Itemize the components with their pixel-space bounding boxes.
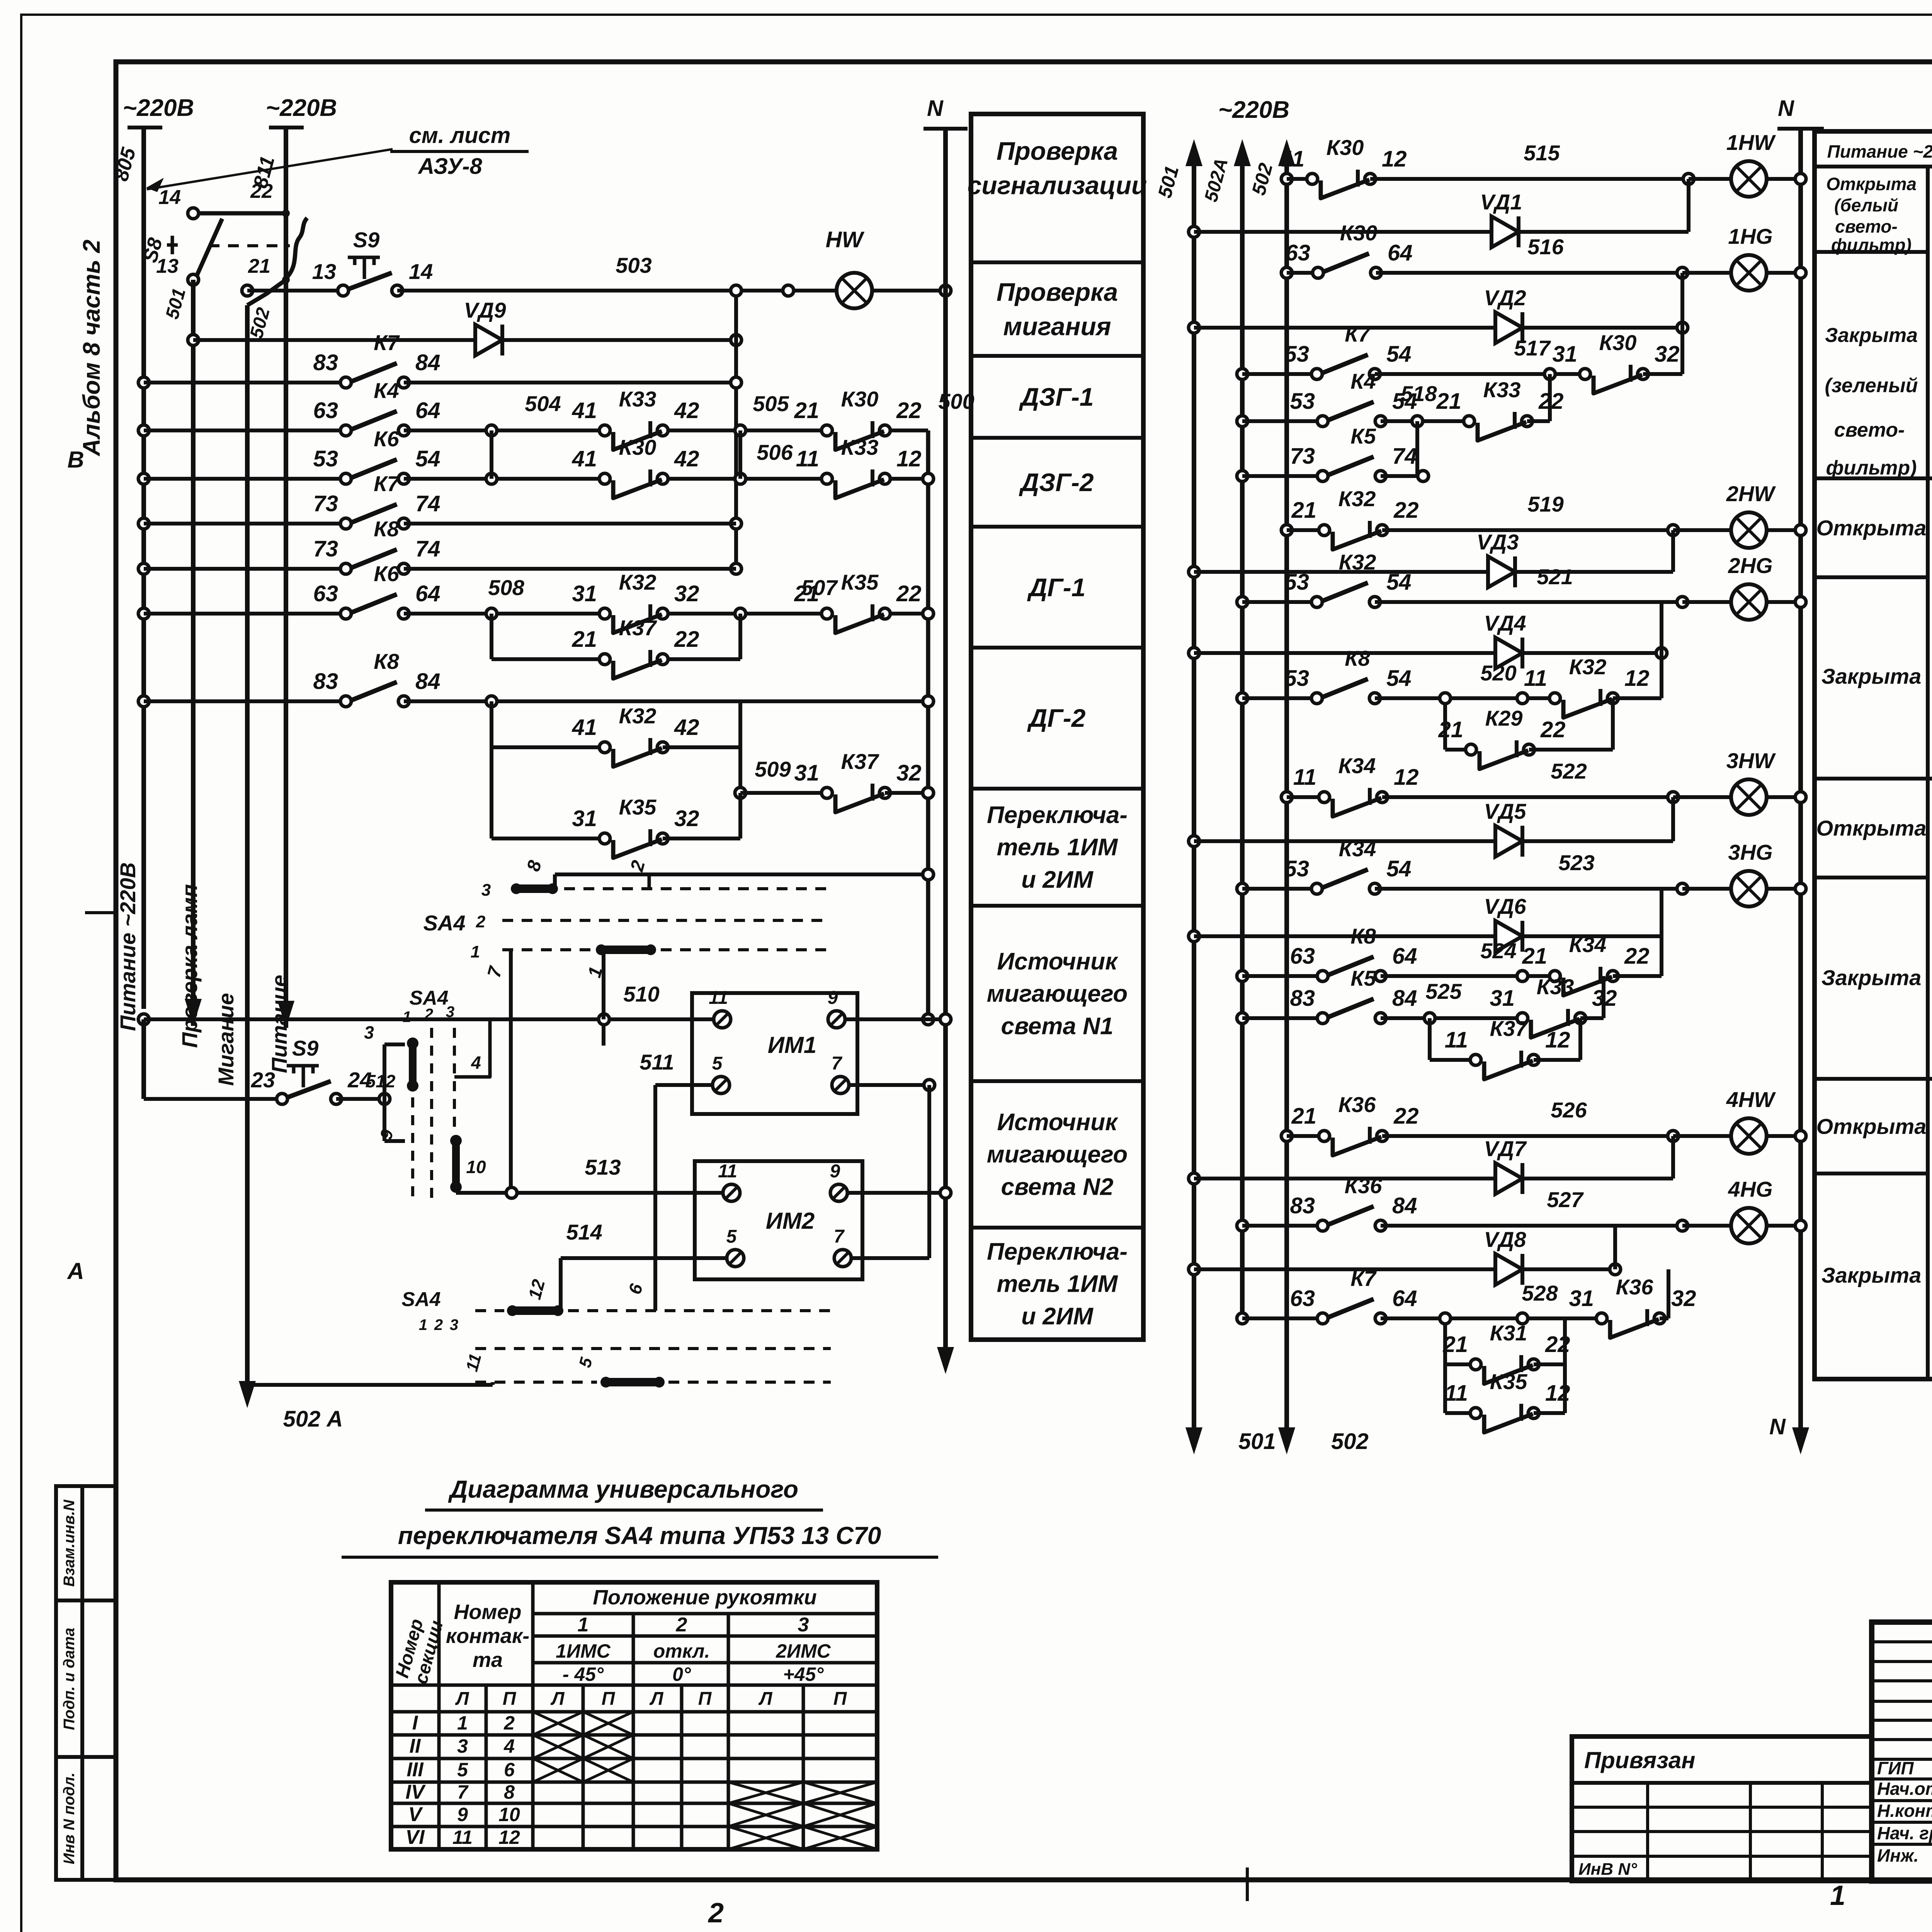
svg-text:N: N: [1778, 96, 1794, 121]
lamp 4HG: [1731, 1208, 1767, 1243]
svg-text:К33: К33: [619, 387, 656, 411]
wire VD9 riser: [731, 335, 742, 345]
svg-text:S9: S9: [292, 1036, 319, 1060]
svg-text:10: 10: [498, 1804, 520, 1825]
svg-text:Н.контр.: Н.контр.: [1877, 1801, 1932, 1821]
svg-text:21: 21: [1442, 1332, 1468, 1357]
svg-text:22: 22: [674, 627, 699, 652]
svg-text:9: 9: [830, 1161, 840, 1182]
SA4 mid section: [336, 1097, 384, 1101]
contact K7 63-64 mid: [1328, 1315, 1375, 1321]
privyazan block: [1572, 1736, 1872, 1881]
row 528: [1237, 1313, 1248, 1324]
svg-text:2: 2: [707, 1898, 724, 1929]
svg-text:N: N: [1769, 1414, 1786, 1439]
svg-text:света N2: света N2: [1001, 1173, 1114, 1200]
svg-text:11: 11: [1445, 1381, 1468, 1406]
svg-text:П: П: [602, 1689, 616, 1709]
arrow 501 bottom: [1192, 1408, 1196, 1443]
svg-text:522: 522: [1551, 759, 1587, 783]
svg-text:3: 3: [798, 1614, 809, 1636]
wire 519: [1382, 528, 1673, 532]
svg-text:2ИМС: 2ИМС: [776, 1640, 831, 1662]
contact K33 11-12: [833, 476, 879, 482]
svg-text:К37: К37: [1490, 1016, 1529, 1041]
svg-text:31: 31: [572, 581, 597, 606]
svg-text:сигнализации: сигнализации: [968, 171, 1147, 200]
svg-text:Питание ~220В: Питание ~220В: [116, 862, 140, 1031]
svg-text:Открыта: Открыта: [1816, 1114, 1927, 1139]
svg-text:ДЗГ-1: ДЗГ-1: [1019, 383, 1094, 411]
diode VD3 row: [1189, 566, 1199, 577]
S8 dashed link: [209, 244, 290, 247]
contact K30 11-12 mid: [1318, 176, 1364, 182]
svg-text:74: 74: [1392, 444, 1417, 469]
diode VD2 row: [1189, 322, 1199, 333]
svg-text:К35: К35: [619, 795, 657, 819]
svg-text:512: 512: [366, 1071, 396, 1091]
svg-text:2: 2: [424, 1006, 433, 1023]
lamp 3HG: [1731, 871, 1767, 906]
long horizontal feed 510: [138, 1014, 149, 1025]
svg-text:Открыта: Открыта: [1826, 174, 1917, 194]
wire 504 node: [486, 425, 497, 436]
contact K33 21-22 mid: [1475, 418, 1521, 424]
svg-text:III: III: [406, 1759, 424, 1781]
svg-text:1: 1: [403, 1009, 411, 1026]
svg-text:II: II: [410, 1735, 421, 1757]
svg-text:21: 21: [248, 255, 270, 277]
svg-text:83: 83: [313, 669, 338, 694]
S9 lower pushbutton: [141, 1019, 146, 1099]
svg-text:Закрыта: Закрыта: [1825, 324, 1918, 347]
svg-text:42: 42: [674, 446, 699, 471]
contact K8 53-54 mid: [1323, 695, 1369, 701]
svg-text:2: 2: [503, 1712, 515, 1734]
svg-text:К34: К34: [1569, 932, 1607, 957]
svg-text:Переключа-: Переключа-: [987, 802, 1128, 828]
svg-text:21: 21: [1291, 498, 1316, 523]
wire 505 node: [735, 425, 746, 436]
svg-text:А: А: [66, 1258, 84, 1284]
svg-text:К35: К35: [841, 570, 879, 594]
svg-text:К36: К36: [1338, 1092, 1376, 1117]
svg-text:Проверка ламп: Проверка ламп: [177, 884, 202, 1048]
riser vd3-519: [1671, 530, 1675, 572]
riser 525 output: [1602, 976, 1605, 1018]
contact K30 41-42: [611, 476, 657, 482]
svg-text:21: 21: [1436, 389, 1461, 414]
diode VD8 row: [1189, 1264, 1199, 1275]
column2 divider vertical: [1926, 167, 1930, 1379]
svg-text:31: 31: [572, 806, 597, 831]
svg-text:1: 1: [471, 942, 480, 961]
svg-text:П: П: [833, 1689, 847, 1709]
contact K34 53-54 mid: [1323, 886, 1369, 892]
contact K30 21-22: [833, 427, 879, 434]
SA4 mid bar section II: [452, 1138, 460, 1190]
svg-text:К30: К30: [1340, 221, 1378, 245]
arrow bus proverka lamp: [191, 980, 195, 1014]
svg-text:Л: Л: [455, 1689, 469, 1709]
svg-text:ИМ1: ИМ1: [768, 1032, 817, 1058]
svg-text:контак-: контак-: [446, 1624, 529, 1648]
diode VD9 row: [188, 335, 199, 345]
riser 518 down: [1415, 421, 1419, 474]
svg-text:84: 84: [415, 350, 440, 375]
riser vd2-516: [1680, 273, 1684, 328]
svg-text:Источник: Источник: [997, 948, 1118, 975]
svg-text:VД2: VД2: [1484, 286, 1526, 310]
svg-text:К33: К33: [841, 435, 879, 459]
contact K32 11-12 mid: [1561, 695, 1607, 701]
svg-text:Проверка: Проверка: [997, 278, 1118, 306]
contact K30 63-64 mid: [1324, 270, 1370, 276]
svg-text:42: 42: [674, 398, 699, 423]
contact K35 21-22: [833, 611, 879, 617]
loop K32 41-42 row: [490, 701, 493, 838]
wire IM1 pin9 to N bus: [845, 1017, 946, 1021]
row K6 53-54: [138, 473, 149, 484]
right collector left block: [926, 430, 930, 1019]
svg-text:21: 21: [571, 627, 597, 652]
contact K37 31-32: [833, 790, 879, 796]
svg-text:63: 63: [313, 398, 338, 423]
svg-text:22: 22: [1393, 1104, 1419, 1129]
title block small rows: [1872, 1640, 1932, 1643]
wire 503 row: [242, 285, 253, 296]
IM2 box: [695, 1161, 862, 1279]
svg-text:К32: К32: [1338, 486, 1376, 511]
zone tick left: [85, 911, 116, 914]
row 519 feed: [1281, 525, 1292, 536]
svg-text:502: 502: [1331, 1429, 1369, 1454]
svg-text:VД5: VД5: [1484, 799, 1527, 823]
lamp 1HW: [1731, 161, 1767, 197]
svg-text:64: 64: [1392, 944, 1417, 969]
contact K4 53-54 mid: [1328, 418, 1375, 424]
svg-text:~220В: ~220В: [1218, 97, 1289, 123]
svg-text:12: 12: [1545, 1027, 1570, 1053]
svg-text:32: 32: [674, 581, 699, 606]
svg-text:Мигание: Мигание: [214, 993, 238, 1086]
wire IM1 pin7 right: [849, 1083, 929, 1087]
sa4 cross marks: [533, 1712, 583, 1735]
svg-text:53: 53: [1284, 666, 1309, 691]
loop K37 11-12: [1428, 1018, 1432, 1060]
svg-text:Закрыта: Закрыта: [1821, 664, 1921, 689]
svg-text:К7: К7: [374, 330, 400, 355]
svg-text:525: 525: [1425, 979, 1462, 1003]
riser 518-517: [1548, 374, 1552, 421]
riser vd7-526: [1671, 1136, 1675, 1179]
svg-text:Л: Л: [759, 1689, 773, 1709]
svg-text:Переключа-: Переключа-: [987, 1238, 1128, 1265]
bus pitanie left: [284, 216, 288, 1028]
svg-text:513: 513: [585, 1155, 621, 1179]
svg-text:Источник: Источник: [997, 1109, 1118, 1136]
row K7 83-84: [138, 377, 149, 388]
row K8 73-74: [138, 563, 149, 574]
svg-text:Л: Л: [650, 1689, 664, 1709]
svg-text:11: 11: [709, 988, 728, 1008]
svg-text:5: 5: [712, 1053, 723, 1074]
svg-text:514: 514: [566, 1220, 602, 1244]
lead 6 drop from 511: [653, 1085, 657, 1311]
svg-text:83: 83: [1290, 986, 1315, 1011]
svg-text:83: 83: [313, 350, 338, 375]
contact K33 41-42: [611, 427, 657, 434]
svg-text:VД4: VД4: [1484, 611, 1526, 635]
svg-text:SА4: SА4: [401, 1288, 440, 1311]
svg-text:К29: К29: [1485, 706, 1523, 730]
svg-text:К8: К8: [374, 649, 399, 673]
svg-text:31: 31: [794, 760, 819, 786]
svg-text:13: 13: [312, 259, 336, 284]
svg-text:VД6: VД6: [1484, 894, 1527, 918]
svg-text:11: 11: [796, 446, 819, 471]
svg-text:Закрыта: Закрыта: [1821, 966, 1921, 990]
svg-text:К32: К32: [619, 570, 656, 594]
collector elbow to SA4: [555, 872, 928, 876]
svg-text:31: 31: [1552, 342, 1577, 367]
row 526 feed: [1281, 1131, 1292, 1141]
svg-text:510: 510: [623, 982, 659, 1006]
lamp 2HW: [1731, 512, 1767, 548]
svg-text:+45°: +45°: [783, 1663, 824, 1685]
svg-text:528: 528: [1522, 1281, 1558, 1305]
N bus mid: [1798, 129, 1803, 1430]
svg-text:Открыта: Открыта: [1816, 816, 1927, 840]
svg-text:22: 22: [1393, 498, 1419, 523]
svg-text:ДЗГ-2: ДЗГ-2: [1019, 468, 1094, 497]
wire 526: [1382, 1134, 1673, 1138]
N bus left: [940, 285, 951, 296]
svg-text:23: 23: [251, 1068, 275, 1092]
svg-text:9: 9: [457, 1804, 468, 1825]
loop K29 21-22: [1443, 698, 1447, 750]
svg-text:1НG: 1НG: [1728, 224, 1772, 248]
loop K37 21-22: [490, 614, 493, 659]
svg-text:22: 22: [896, 581, 922, 606]
svg-text:3: 3: [446, 1003, 454, 1020]
svg-text:и 2ИМ: и 2ИМ: [1021, 1303, 1094, 1330]
svg-text:VД8: VД8: [1484, 1227, 1527, 1252]
wire 509 row: [735, 787, 746, 798]
svg-text:73: 73: [313, 491, 338, 516]
svg-text:света N1: света N1: [1001, 1013, 1114, 1039]
row 521: [1237, 597, 1248, 607]
contact K36 83-84 mid: [1328, 1223, 1375, 1229]
lamp 1HG: [1731, 255, 1767, 291]
svg-text:К33: К33: [1537, 975, 1574, 999]
svg-text:53: 53: [313, 446, 338, 471]
link 505-506: [738, 430, 742, 479]
contact K33 31-32 mid: [1528, 1015, 1575, 1021]
diode VD4 row: [1189, 648, 1199, 658]
contact K36 31-32 mid: [1607, 1315, 1654, 1321]
svg-text:Л: Л: [551, 1689, 565, 1709]
svg-text:К7: К7: [374, 471, 400, 496]
svg-text:К8: К8: [1350, 924, 1376, 948]
row 517: [1237, 369, 1248, 379]
svg-text:21: 21: [1522, 944, 1547, 969]
lamp 4HW: [1731, 1118, 1767, 1154]
contact K7 53-54 mid: [1323, 371, 1369, 377]
lamp 3HW: [1731, 779, 1767, 815]
SA4 upper lead 7 drop: [509, 950, 513, 1193]
svg-text:Альбом 8 часть 2: Альбом 8 часть 2: [78, 240, 105, 457]
bus 502 mid: [1284, 166, 1289, 1430]
riser 520 output: [1660, 653, 1663, 698]
svg-text:22: 22: [250, 180, 273, 202]
svg-text:Взам.инв.N: Взам.инв.N: [61, 1499, 78, 1587]
svg-text:ИМ2: ИМ2: [766, 1208, 815, 1234]
svg-text:31: 31: [1569, 1286, 1594, 1311]
SA4 mid lead 4 riser: [454, 1020, 490, 1077]
bus 811: [284, 128, 288, 216]
svg-text:Инв N подл.: Инв N подл.: [61, 1772, 78, 1864]
svg-text:2: 2: [476, 912, 486, 931]
svg-text:откл.: откл.: [653, 1640, 710, 1662]
svg-text:5: 5: [457, 1759, 468, 1781]
svg-text:73: 73: [1290, 444, 1315, 469]
bus 501 mid: [1192, 166, 1196, 1430]
svg-text:1: 1: [1830, 1880, 1845, 1911]
svg-text:11: 11: [1524, 666, 1547, 691]
arrow N mid bottom: [1799, 1408, 1803, 1443]
svg-text:VI: VI: [405, 1826, 425, 1849]
svg-text:5: 5: [726, 1226, 737, 1247]
svg-text:12: 12: [1382, 146, 1407, 172]
svg-text:К30: К30: [841, 387, 879, 411]
svg-text:21: 21: [794, 581, 819, 606]
svg-text:3: 3: [457, 1735, 468, 1757]
svg-text:ДГ-1: ДГ-1: [1027, 573, 1086, 602]
svg-text:53: 53: [1284, 570, 1309, 595]
wire 515: [1370, 177, 1689, 181]
svg-text:4: 4: [503, 1735, 515, 1757]
row K8 83-84: [138, 696, 149, 707]
svg-text:63: 63: [1290, 944, 1315, 969]
riser vd5-522: [1671, 797, 1675, 841]
svg-text:(белый: (белый: [1834, 195, 1898, 215]
svg-text:S9: S9: [353, 228, 380, 252]
svg-text:53: 53: [1284, 856, 1309, 881]
svg-text:521: 521: [1537, 565, 1573, 589]
svg-text:2НG: 2НG: [1728, 553, 1772, 578]
svg-text:74: 74: [415, 491, 440, 516]
svg-text:V: V: [408, 1803, 423, 1826]
switch S8 changeover: [188, 208, 199, 219]
svg-text:К4: К4: [1350, 369, 1376, 393]
svg-text:3: 3: [450, 1316, 458, 1333]
diode VD1 row: [1189, 226, 1199, 237]
diode VD5 row: [1189, 836, 1199, 847]
contact K32 53-54 mid: [1323, 599, 1369, 605]
svg-text:3НW: 3НW: [1726, 748, 1776, 773]
svg-text:517: 517: [1514, 336, 1551, 360]
svg-text:К34: К34: [1339, 837, 1376, 861]
svg-text:64: 64: [1392, 1286, 1417, 1311]
contact K36 21-22 mid: [1330, 1133, 1376, 1139]
svg-text:22: 22: [1624, 944, 1650, 969]
svg-text:83: 83: [1290, 1193, 1315, 1218]
svg-text:12: 12: [498, 1827, 520, 1848]
svg-text:503: 503: [616, 253, 651, 277]
svg-text:11: 11: [452, 1827, 473, 1848]
SA4 mid bar section I: [409, 1040, 417, 1089]
svg-text:54: 54: [1386, 856, 1412, 881]
svg-text:см. лист: см. лист: [409, 123, 511, 148]
arrow 502 bottom: [1285, 1408, 1289, 1443]
svg-text:фильтр): фильтр): [1826, 457, 1917, 479]
loop K35 31-32: [492, 837, 605, 840]
svg-text:42: 42: [674, 715, 699, 740]
svg-text:32: 32: [1655, 342, 1680, 367]
svg-text:523: 523: [1558, 850, 1594, 875]
svg-text:64: 64: [415, 581, 440, 606]
svg-text:Питание ~220В: Питание ~220В: [1827, 141, 1932, 162]
svg-text:тель 1ИМ: тель 1ИМ: [997, 1271, 1118, 1298]
wire IM2 pin9 to N bus: [847, 1191, 946, 1195]
label column 1 frame: [971, 114, 1143, 1340]
svg-text:- 45°: - 45°: [563, 1663, 604, 1685]
sa4 table verticals: [437, 1582, 441, 1849]
svg-text:14: 14: [409, 259, 433, 284]
svg-text:32: 32: [674, 806, 699, 831]
svg-text:АЗУ-8: АЗУ-8: [417, 154, 482, 179]
contact K32 21-22 mid: [1330, 527, 1376, 533]
row 518: [1237, 416, 1248, 427]
svg-text:6: 6: [504, 1759, 515, 1781]
wire 521: [1375, 600, 1682, 604]
svg-text:54: 54: [1386, 570, 1412, 595]
sa4 table frame: [391, 1582, 877, 1849]
svg-text:12: 12: [896, 446, 922, 471]
svg-text:Проверка: Проверка: [997, 137, 1118, 165]
wire IM2 pin7 link: [851, 1256, 929, 1260]
svg-text:фильтр): фильтр): [1831, 235, 1912, 255]
svg-text:520: 520: [1480, 661, 1516, 685]
lamp HW: [837, 273, 872, 308]
svg-text:21: 21: [1291, 1104, 1316, 1129]
svg-text:506: 506: [757, 440, 793, 464]
svg-text:21: 21: [794, 398, 819, 423]
contact K5 83-84 mid: [1328, 1015, 1375, 1021]
svg-text:Положение рукоятки: Положение рукоятки: [593, 1586, 817, 1609]
svg-text:22: 22: [1540, 717, 1566, 742]
svg-text:41: 41: [571, 715, 597, 740]
svg-text:переключателя SA4 типа УП53: переключателя SA4 типа УП53 13 С70: [398, 1522, 881, 1549]
svg-text:мигающего: мигающего: [987, 1141, 1128, 1168]
svg-text:4НG: 4НG: [1728, 1177, 1772, 1201]
svg-text:508: 508: [488, 575, 524, 600]
svg-text:К8: К8: [374, 517, 399, 541]
svg-text:504: 504: [525, 391, 561, 416]
svg-text:63: 63: [313, 581, 338, 606]
svg-text:К32: К32: [1339, 550, 1376, 574]
contact K5 73-74 mid: [1328, 473, 1375, 479]
loop K35 11-12: [1443, 1364, 1447, 1413]
svg-text:3: 3: [364, 1022, 374, 1043]
svg-text:ДГ-2: ДГ-2: [1027, 704, 1086, 732]
svg-text:Нач. гр.: Нач. гр.: [1877, 1823, 1932, 1843]
svg-text:К36: К36: [1616, 1275, 1654, 1299]
svg-text:IV: IV: [405, 1781, 426, 1803]
svg-text:64: 64: [1388, 240, 1413, 265]
vertical pin7 link: [927, 1085, 931, 1258]
